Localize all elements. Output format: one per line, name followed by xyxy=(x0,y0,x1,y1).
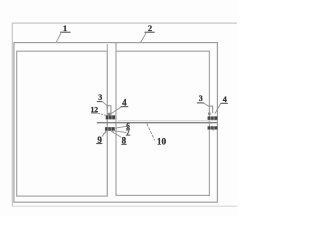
leader label 3 right xyxy=(204,103,209,107)
panel 2 left edge extension to wall top xyxy=(115,43,117,52)
left upper hatch block xyxy=(106,115,116,119)
left lower hatch block xyxy=(105,127,115,131)
leader label 1 xyxy=(56,33,61,42)
svg-text:4: 4 xyxy=(122,98,127,108)
leader label 3 left xyxy=(103,102,108,106)
frame left xyxy=(11,23,13,206)
left bracket 3 xyxy=(107,106,111,115)
right connector middle leg below xyxy=(212,130,214,132)
leader label 4 left xyxy=(110,107,121,114)
panel 1 xyxy=(17,51,108,196)
leader label 12 xyxy=(98,113,106,115)
panel 2 xyxy=(116,51,209,195)
leader label 10 xyxy=(147,124,155,141)
leader label 2 xyxy=(141,33,146,42)
right bracket 3 xyxy=(209,106,213,113)
support bar 10 dark line xyxy=(97,122,218,124)
support bar 10 light top line xyxy=(118,120,217,122)
left connector legs below xyxy=(105,131,107,134)
svg-text:10: 10 xyxy=(157,136,167,146)
right upper hatch block xyxy=(208,116,218,120)
frame top xyxy=(12,22,237,24)
gap vertical: panel 1 right edge xyxy=(106,44,108,196)
leader label 9 xyxy=(102,131,106,137)
wall rect xyxy=(14,43,218,203)
leader label 7 xyxy=(113,131,126,133)
left bracket nub xyxy=(108,113,111,116)
leader label 6 xyxy=(115,126,126,128)
svg-text:3: 3 xyxy=(98,93,102,102)
right lower hatch block xyxy=(208,126,218,129)
svg-text:1: 1 xyxy=(63,23,67,33)
right bracket nub xyxy=(208,113,211,115)
leader label 4 right xyxy=(215,104,221,114)
leader label 8 xyxy=(111,131,121,137)
frame bottom xyxy=(12,205,237,207)
svg-text:2: 2 xyxy=(148,23,152,33)
svg-text:3: 3 xyxy=(199,94,203,103)
